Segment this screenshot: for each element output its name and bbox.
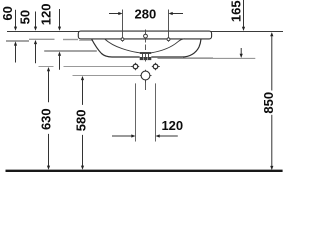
svg-text:165: 165 bbox=[228, 0, 243, 22]
dim 850 bbox=[270, 32, 273, 36]
dim 60 arrows bbox=[15, 10, 17, 27]
dim 630 bbox=[47, 67, 50, 71]
svg-text:50: 50 bbox=[17, 10, 32, 24]
centre faucet hole bbox=[144, 34, 148, 38]
svg-text:630: 630 bbox=[38, 108, 53, 130]
dim 280 bbox=[109, 13, 119, 15]
drain flange bbox=[140, 52, 152, 54]
wall reference line bbox=[7, 31, 283, 33]
ext line big hole level bbox=[73, 75, 140, 77]
dim 50 arrows bbox=[35, 12, 37, 28]
outer bowl curve left bbox=[92, 39, 140, 57]
dim 120 left arrows bbox=[59, 9, 61, 27]
bottom ext line right bbox=[155, 83, 157, 141]
small fixing hole right bbox=[152, 66, 160, 68]
dim 120 bottom bbox=[112, 135, 132, 137]
big drain hole bbox=[140, 75, 152, 77]
ext line 50 level bbox=[29, 38, 55, 40]
svg-text:60: 60 bbox=[0, 6, 15, 20]
basin rim slab bbox=[78, 31, 211, 39]
dim 580 bbox=[81, 76, 84, 80]
small fixing hole left bbox=[131, 66, 139, 68]
bottom ext line left bbox=[135, 83, 137, 141]
165 target line bbox=[158, 57, 256, 59]
ext line 60 level bbox=[6, 40, 29, 42]
right faucet hole bbox=[168, 10, 170, 42]
drain trap band bbox=[140, 57, 152, 60]
drain neck bbox=[142, 54, 144, 58]
inner bowl curve right bbox=[151, 39, 185, 53]
svg-text:280: 280 bbox=[135, 6, 157, 21]
svg-text:580: 580 bbox=[73, 110, 88, 132]
floor line bbox=[6, 170, 283, 172]
inner bowl curve left bbox=[105, 39, 140, 53]
ext line right of 50 bbox=[63, 39, 78, 41]
svg-text:120: 120 bbox=[161, 118, 183, 133]
svg-text:850: 850 bbox=[261, 92, 276, 114]
dim 165 bbox=[243, 0, 245, 27]
svg-text:120: 120 bbox=[38, 4, 53, 26]
left faucet hole bbox=[122, 10, 124, 42]
bowl underside back edge bbox=[183, 57, 213, 59]
outer bowl curve right bbox=[151, 39, 201, 57]
gray stub under slab bbox=[79, 39, 93, 41]
ext line holes level bbox=[39, 66, 54, 68]
centre line bbox=[145, 30, 147, 62]
apron bottom ext line (120 level) bbox=[44, 50, 97, 52]
